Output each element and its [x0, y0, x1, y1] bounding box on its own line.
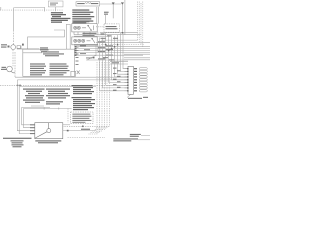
wire fuse bus	[100, 3, 121, 5]
label row above relay K1	[73, 21, 89, 22]
connector at module corner	[71, 71, 80, 77]
label pump left	[1, 44, 10, 47]
label bus wire labels	[98, 41, 119, 63]
label sender left	[1, 67, 7, 70]
wire note 1 leader	[141, 134, 150, 136]
wire to module top	[28, 37, 65, 49]
component fuel pump module box	[23, 49, 75, 76]
label text block T1	[51, 12, 71, 23]
component sender float arm	[35, 123, 51, 138]
node module top-left tick	[22, 44, 24, 46]
label module table left	[30, 63, 46, 75]
wire bus band	[74, 33, 150, 64]
label tank stubs	[30, 124, 35, 134]
connector C1 pin ticks	[127, 68, 129, 92]
label middle paragraph	[46, 89, 70, 99]
fuel pump motor M1	[11, 45, 16, 50]
wire harness lines above tank	[22, 106, 72, 110]
wire pump output with arrow	[17, 48, 39, 50]
wire stub left edge	[0, 7, 2, 10]
wire dashed drop left of P3	[67, 109, 69, 123]
node tank wire chevron	[67, 130, 69, 132]
node pump inline connector	[17, 46, 21, 49]
node junction tank wire	[82, 126, 84, 128]
label notes P2	[72, 97, 96, 110]
label small fuse left	[104, 12, 109, 15]
label fuse block text	[77, 3, 98, 4]
label bottom-right note 2	[113, 138, 138, 141]
component top small box	[48, 1, 63, 7]
label pump wire	[40, 47, 49, 52]
relay K2	[72, 37, 97, 45]
node relay K2 pin dots	[75, 38, 93, 41]
wire pump to sender	[12, 50, 14, 67]
label tank caption	[35, 140, 61, 143]
wire long bus from left	[0, 77, 128, 86]
node bus left chevrons	[75, 46, 95, 58]
label left table	[23, 89, 45, 103]
wire jog to C2	[54, 30, 65, 37]
component dashed note box P3	[71, 112, 94, 124]
component fuse block top	[76, 2, 100, 6]
node feed arrow B2	[121, 2, 124, 5]
wire bottom dashed	[68, 137, 106, 139]
label dashed box	[106, 26, 118, 29]
label C1 pin names	[134, 68, 137, 91]
label module table right	[50, 63, 70, 75]
wire right edge drops	[138, 2, 143, 47]
wire fuse drops	[97, 0, 125, 35]
wire center dashed drops	[63, 62, 110, 134]
node feed arrow B1	[112, 2, 115, 5]
label notes P3	[72, 114, 91, 123]
connector C1 stubs	[125, 69, 129, 91]
relay K1 pins	[74, 32, 90, 35]
connector C1 terminals	[139, 68, 147, 92]
wire left nest	[17, 80, 35, 134]
label tank title	[46, 101, 63, 104]
wire relay right drops	[96, 32, 100, 56]
wire inside module	[23, 52, 42, 54]
wire pump drop	[13, 8, 15, 45]
label bottom-right note 1	[130, 134, 141, 137]
label top box text	[50, 3, 58, 6]
node fan junction dots	[105, 32, 123, 51]
wire sender down	[14, 52, 16, 77]
label bottom-left block	[11, 140, 24, 147]
relay K1	[72, 24, 97, 32]
wire dashed stub right of header	[96, 26, 104, 28]
label below relay K2	[74, 44, 98, 45]
wire fan verticals	[100, 32, 128, 91]
label tank output wire	[81, 129, 90, 130]
label module right pins	[76, 47, 79, 66]
wire top box drop	[55, 7, 57, 11]
label notes P1	[72, 85, 95, 94]
fuel sender motor M2	[7, 66, 15, 73]
label bus row tags left	[80, 45, 92, 58]
component fuel tank	[35, 123, 63, 139]
wire hot feed	[14, 8, 45, 12]
label bottom-left line	[3, 138, 32, 139]
wire to dashed box	[105, 15, 107, 24]
label C1 pointer	[127, 94, 131, 97]
node bus junctions	[17, 85, 21, 87]
wire dotted feed top-left	[0, 9, 63, 11]
label fan wire tags	[101, 33, 119, 60]
label C1 caption	[128, 97, 148, 99]
label C1 row wire tags	[113, 68, 121, 91]
label module internal	[43, 51, 64, 56]
component dashed connector box	[104, 24, 119, 32]
label header text T2	[72, 9, 94, 23]
connector C1 ladder box	[128, 66, 133, 94]
wire tank output	[63, 130, 96, 132]
wire tank right stub	[63, 124, 70, 126]
connector C2 tall	[66, 24, 70, 49]
label between relays	[83, 33, 97, 36]
node relay K1 pin dots	[75, 25, 92, 31]
wire note 2 leader	[138, 139, 150, 141]
